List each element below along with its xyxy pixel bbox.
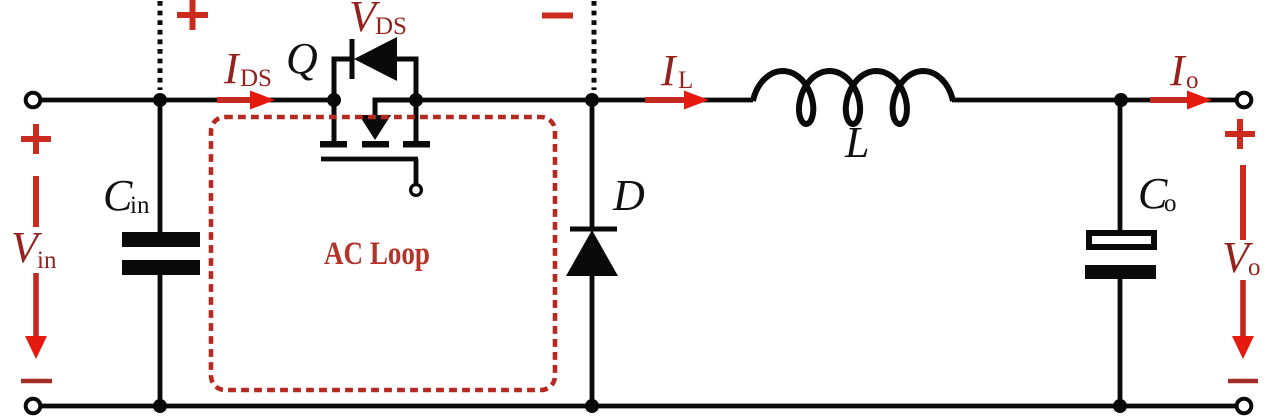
minus top bbox=[542, 13, 573, 19]
channel bar right bbox=[403, 141, 430, 148]
arrow Vo bbox=[1232, 280, 1254, 359]
svg-text:Q: Q bbox=[286, 34, 318, 83]
node input bottom bbox=[153, 399, 167, 413]
label VDS bbox=[349, 0, 407, 41]
plus Vo bbox=[1225, 119, 1255, 240]
channel bar middle bbox=[362, 141, 389, 148]
arrow IL bbox=[645, 91, 709, 110]
node input top bbox=[153, 93, 167, 107]
node drain bbox=[327, 93, 341, 107]
svg-text:L: L bbox=[844, 118, 869, 167]
terminal bottom-right bbox=[1237, 399, 1252, 414]
svg-text:C: C bbox=[103, 171, 133, 220]
arrow IDS bbox=[217, 91, 275, 110]
terminal top-left bbox=[26, 93, 41, 108]
svg-text:AC Loop: AC Loop bbox=[324, 234, 430, 271]
wire diode column upper bbox=[590, 100, 595, 229]
arrow Vin bbox=[25, 273, 47, 359]
body diode cathode bar bbox=[350, 39, 355, 79]
dotted measure line right bbox=[592, 1, 597, 90]
wire diode column lower bbox=[590, 275, 595, 406]
svg-text:in: in bbox=[37, 247, 57, 274]
wire top-left segment bbox=[40, 98, 336, 103]
svg-text:L: L bbox=[678, 67, 693, 94]
label Cin bbox=[103, 171, 150, 220]
node Co top bbox=[1114, 93, 1128, 107]
node source bbox=[409, 93, 423, 107]
gate lead bbox=[414, 159, 419, 184]
wire source stub bbox=[374, 98, 418, 103]
svg-text:in: in bbox=[130, 192, 150, 219]
wire Co column lower bbox=[1118, 277, 1123, 406]
arrow Io bbox=[1150, 91, 1212, 110]
svg-text:DS: DS bbox=[375, 13, 407, 40]
label IDS bbox=[223, 44, 272, 93]
wire Cin column lower bbox=[158, 274, 163, 406]
capacitor Cin bbox=[122, 232, 200, 275]
bulk stub bbox=[375, 100, 416, 116]
bulk arrow bbox=[359, 115, 391, 140]
svg-text:I: I bbox=[660, 46, 678, 95]
gate bar bbox=[321, 157, 418, 162]
drain leg down bbox=[332, 100, 337, 144]
label IL bbox=[660, 46, 693, 95]
diode D bbox=[566, 229, 618, 276]
inductor L bbox=[753, 71, 953, 124]
wire top-right segment bbox=[952, 98, 1238, 103]
svg-text:DS: DS bbox=[240, 65, 272, 92]
dotted measure line left bbox=[158, 1, 163, 90]
plus top bbox=[177, 0, 208, 30]
plus Vin bbox=[21, 124, 51, 227]
AC loop dashed box bbox=[211, 117, 555, 390]
node diode bottom bbox=[585, 399, 599, 413]
label Vo bbox=[1222, 233, 1261, 282]
terminal top-right bbox=[1237, 93, 1252, 108]
label Io bbox=[1169, 46, 1199, 95]
drain leg up bbox=[334, 59, 352, 100]
body diode right connect bbox=[397, 59, 416, 100]
terminal bottom-left bbox=[26, 399, 41, 414]
node diode top bbox=[585, 93, 599, 107]
wire top-middle segment bbox=[416, 98, 753, 103]
label Co bbox=[1138, 169, 1177, 218]
svg-text:o: o bbox=[1164, 190, 1177, 217]
svg-text:I: I bbox=[1169, 46, 1187, 95]
minus Vin bbox=[21, 379, 52, 384]
capacitor Co bbox=[1085, 233, 1156, 279]
svg-text:D: D bbox=[612, 171, 645, 220]
channel bar left bbox=[320, 141, 347, 148]
node Co bottom bbox=[1113, 399, 1127, 413]
gate terminal bbox=[411, 185, 422, 196]
svg-text:I: I bbox=[223, 44, 241, 93]
source leg down bbox=[414, 100, 419, 144]
label Vin bbox=[11, 223, 57, 274]
minus Vo bbox=[1228, 379, 1258, 384]
wire Cin column upper bbox=[158, 100, 163, 233]
svg-text:o: o bbox=[1248, 254, 1261, 281]
wire bottom rail bbox=[41, 404, 1237, 409]
wire Co column upper bbox=[1118, 100, 1123, 232]
body diode triangle bbox=[354, 37, 397, 81]
svg-text:o: o bbox=[1186, 67, 1199, 94]
transistor Q (MOSFET with body diode) bbox=[320, 37, 430, 195]
